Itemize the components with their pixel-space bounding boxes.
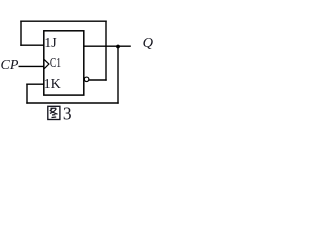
caption glyph: 图 inner strokes xyxy=(50,108,58,117)
wire: Q-bar riser vertical xyxy=(105,21,107,81)
svg-text:Q: Q xyxy=(143,36,153,51)
inversion bubble on Q-bar output xyxy=(84,77,89,82)
wire: 1J input horizontal xyxy=(20,44,44,46)
svg-text:C1: C1 xyxy=(50,56,61,71)
wire: CP input horizontal xyxy=(19,65,44,67)
wire: 1K input horizontal xyxy=(26,83,44,85)
wire: Q output horizontal xyxy=(84,45,131,47)
svg-text:1J: 1J xyxy=(44,36,57,51)
caption glyph: 图 outer box xyxy=(48,106,60,119)
wire: right vertical from Q node down xyxy=(117,46,119,103)
svg-text:1K: 1K xyxy=(44,77,61,92)
wire: Q-bar stub from bubble xyxy=(89,79,107,81)
dynamic clock input triangle on C1 xyxy=(44,60,49,69)
JK flip-flop U1 box xyxy=(44,31,84,95)
svg-text:3: 3 xyxy=(63,103,72,123)
wire: left-bottom vertical from 1K down xyxy=(26,84,28,104)
wire: left vertical down to 1J xyxy=(20,21,22,46)
junction node on Q line xyxy=(116,45,120,49)
svg-text:CP: CP xyxy=(1,58,19,73)
wire: top feedback horizontal xyxy=(20,20,106,22)
wire: bottom feedback horizontal xyxy=(26,102,118,104)
